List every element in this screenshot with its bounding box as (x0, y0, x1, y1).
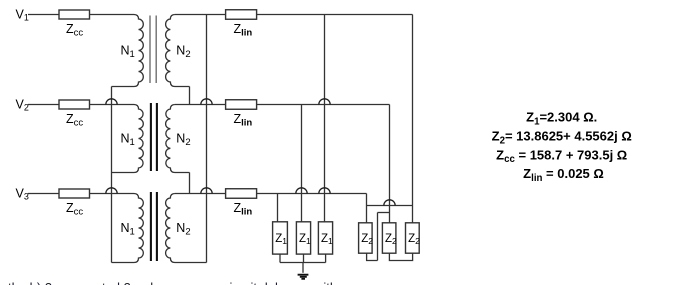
svg-text:circuit del: circuit del (223, 280, 278, 285)
svg-text:the b) 3- connected 3-: the b) 3- connected 3- (8, 280, 135, 285)
svg-text:phase: phase (143, 280, 178, 285)
svg-text:with: with (313, 280, 337, 285)
